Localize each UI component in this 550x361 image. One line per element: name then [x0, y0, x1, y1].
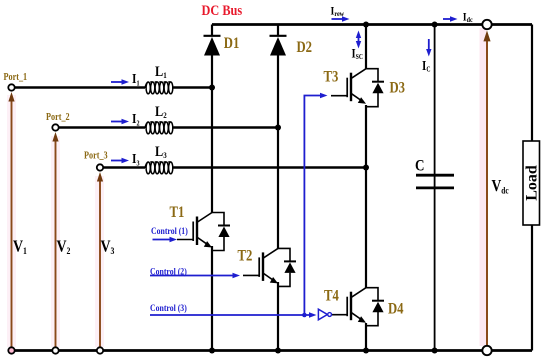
svg-text:Port_1: Port_1 [4, 71, 28, 82]
diode D1 [204, 36, 221, 56]
output voltage arrow Vdc [486, 40, 488, 345]
transistor T2 (IGBT) [243, 248, 278, 283]
node: port2/D2 [275, 125, 281, 131]
node: port3/T3T4 [363, 165, 369, 171]
svg-text:V3: V3 [101, 237, 116, 256]
svg-text:L3: L3 [155, 143, 167, 160]
load resistor box [523, 141, 540, 225]
svg-text:Control (3): Control (3) [150, 302, 187, 313]
wire: D2 leg [277, 25, 279, 351]
svg-text:C: C [415, 157, 424, 174]
wire: gate feed to T3 (blue) [304, 96, 321, 316]
svg-text:V2: V2 [57, 237, 71, 256]
svg-text:D4: D4 [388, 300, 404, 317]
wire: capacitor leg [434, 25, 436, 351]
capacitor C [416, 175, 454, 188]
node: control branch junction [302, 313, 307, 318]
current arrow I1 [111, 81, 123, 83]
inductor L1 [145, 82, 173, 94]
node: rail/T4 [363, 348, 369, 354]
svg-text:V1: V1 [13, 237, 27, 256]
svg-text:T2: T2 [238, 247, 253, 264]
svg-text:D2: D2 [297, 39, 313, 56]
source arrow V1 [11, 100, 13, 351]
node: port1/D1 [209, 85, 215, 91]
freewheel diode of T2 [278, 248, 296, 286]
svg-text:D3: D3 [390, 79, 406, 96]
wire: bottom rail [12, 349, 533, 352]
svg-text:Port_2: Port_2 [46, 111, 70, 122]
source arrow V3 [99, 180, 101, 351]
current arrow Isc (bidirectional) [358, 35, 360, 45]
svg-text:Vdc: Vdc [492, 178, 509, 196]
svg-text:Control (2): Control (2) [150, 266, 187, 277]
svg-text:L1: L1 [155, 63, 167, 80]
inductor L2 [145, 122, 173, 134]
wire: port 2 line [59, 126, 279, 128]
source arrow V2 [55, 140, 57, 351]
inverter (NOT gate) [318, 309, 327, 320]
freewheel diode D3 [366, 69, 384, 107]
bottom terminal 3 [97, 347, 103, 353]
bottom terminal 2 [52, 347, 58, 353]
svg-text:L2: L2 [155, 103, 167, 120]
port 1 terminal [8, 84, 14, 90]
svg-text:ISC: ISC [352, 45, 364, 61]
node: rail/T2 [275, 348, 281, 354]
svg-text:Irew: Irew [331, 5, 345, 19]
svg-text:I2: I2 [132, 111, 140, 128]
transistor T1 (IGBT) [177, 213, 212, 248]
svg-text:Load: Load [523, 165, 540, 201]
node: rail/T1 [209, 348, 215, 354]
current arrow Irew [332, 18, 344, 20]
svg-text:I3: I3 [132, 151, 140, 168]
node: bus/T3 [363, 22, 369, 28]
node: rail/C [432, 348, 438, 354]
svg-text:T3: T3 [324, 68, 339, 85]
svg-text:DC Bus: DC Bus [202, 2, 243, 18]
svg-text:IC: IC [422, 58, 431, 74]
current arrow Ic [428, 39, 430, 50]
transistor T3 (IGBT) [331, 69, 366, 104]
output terminal top [482, 20, 491, 29]
svg-text:D1: D1 [224, 35, 240, 52]
port 3 terminal [97, 164, 103, 170]
wire: port 3 line [103, 166, 366, 168]
control 3 line [150, 314, 310, 316]
inductor L3 [145, 162, 173, 174]
current arrow Idc [443, 18, 451, 20]
control 2 arrow [150, 275, 233, 277]
transistor T4 (IGBT) [331, 288, 366, 323]
diode D2 [270, 36, 287, 56]
current arrow I3 [111, 160, 123, 162]
svg-text:Port_3: Port_3 [84, 150, 108, 161]
output terminal bottom [482, 346, 491, 355]
wire: right branch (load) [531, 25, 533, 351]
freewheel diode of T1 [212, 213, 230, 251]
bottom terminal 1 [8, 347, 14, 353]
wire: port 1 line [15, 86, 213, 88]
wire: D1 leg [211, 25, 213, 351]
control 1 arrow [153, 239, 171, 241]
svg-text:Idc: Idc [463, 11, 473, 25]
wire: top DC bus [212, 23, 532, 26]
port 2 terminal [52, 124, 58, 130]
svg-text:T4: T4 [324, 287, 339, 304]
wire: T3/T4 leg [365, 25, 367, 351]
current arrow I2 [111, 121, 123, 123]
svg-text:Control (1): Control (1) [151, 225, 188, 236]
svg-text:I1: I1 [132, 71, 140, 88]
freewheel diode D4 [366, 288, 384, 326]
node: bus/C [432, 22, 438, 28]
svg-text:T1: T1 [170, 204, 185, 221]
